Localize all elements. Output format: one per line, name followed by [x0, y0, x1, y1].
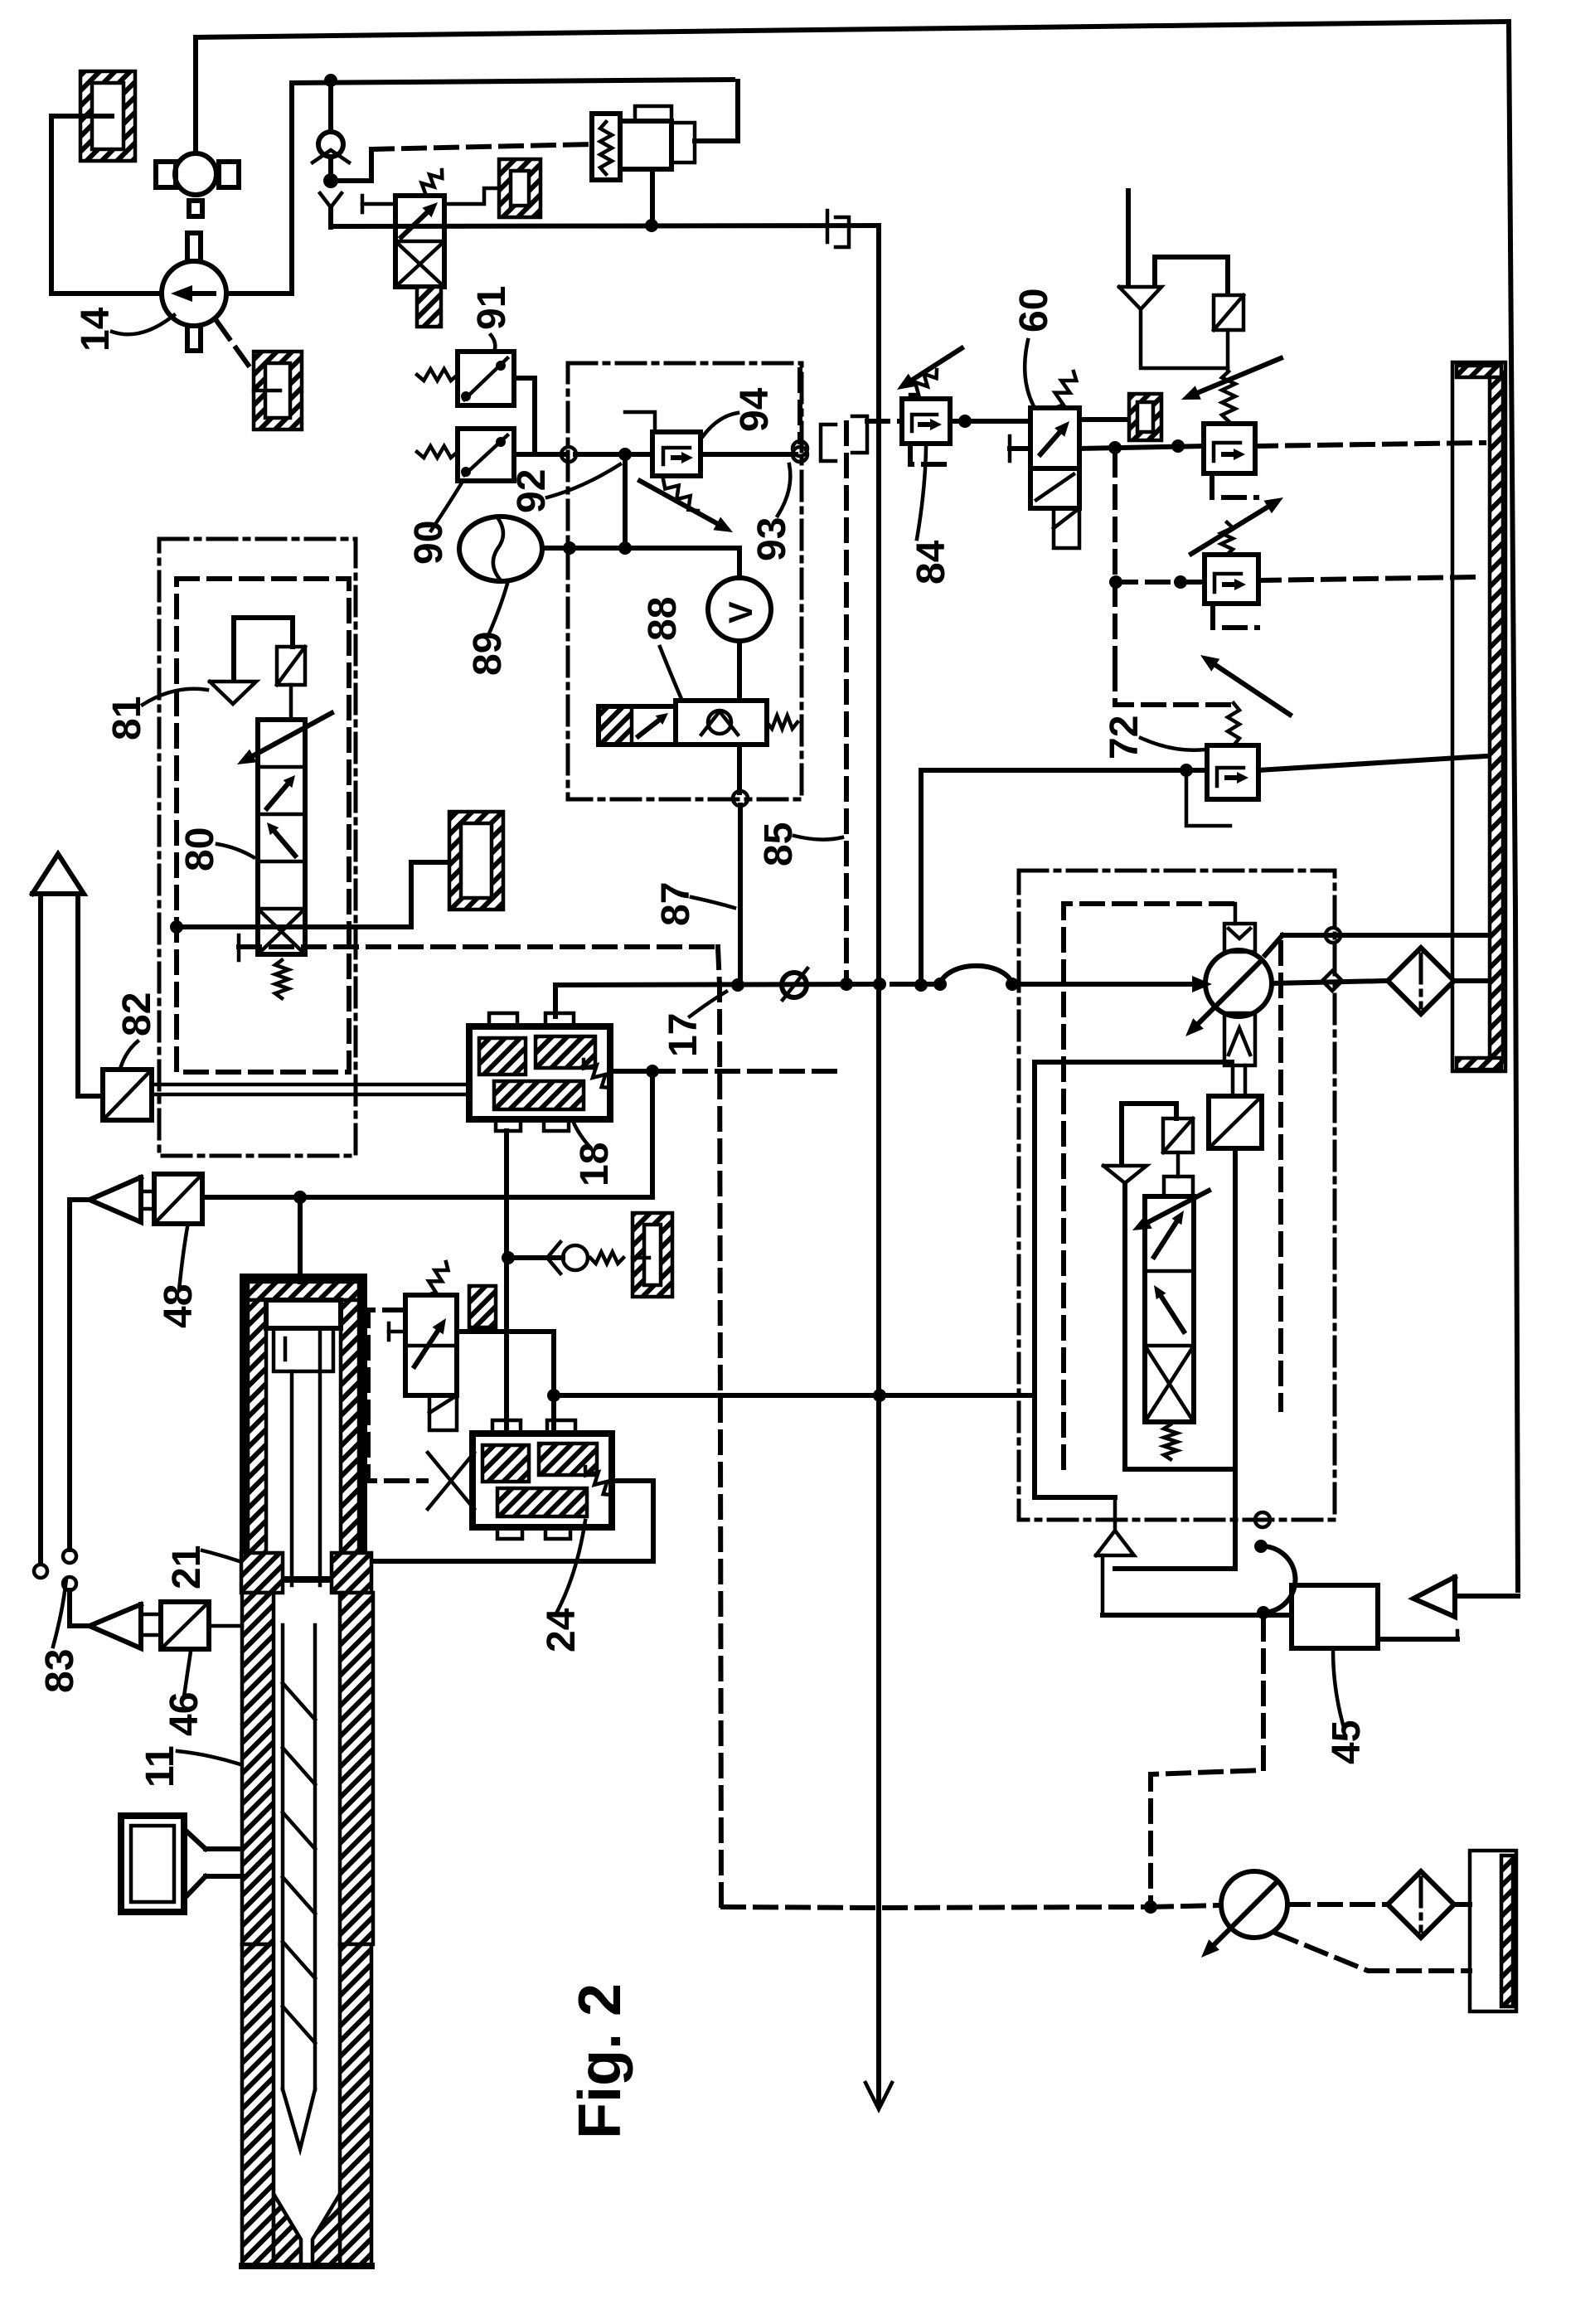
- funnel tank 81: [210, 682, 256, 704]
- svg-text:85: 85: [757, 822, 801, 866]
- main rail to filter: [1272, 981, 1386, 983]
- pilot valve T-port: [361, 196, 365, 212]
- dashed vertical x=868: [718, 947, 721, 1905]
- valve 24 spring: [585, 1467, 612, 1495]
- strainer triangle: [1096, 1531, 1134, 1555]
- node open circle right: [793, 447, 807, 462]
- transducer 46: [161, 1602, 209, 1649]
- svg-text:88: 88: [641, 597, 685, 641]
- wire valve 94 to coupling: [701, 452, 796, 457]
- valve B spring+arrow: [1221, 522, 1233, 555]
- pump P3: [1221, 1871, 1287, 1938]
- svg-text:80: 80: [178, 827, 222, 871]
- wire return to pump P3: [1151, 1905, 1221, 1907]
- valve B pilot bracket: [1213, 607, 1258, 628]
- pilot rail y=1683: [554, 1393, 1035, 1398]
- svg-text:V: V: [723, 601, 759, 623]
- inner dashed right: [1278, 943, 1283, 1409]
- check valve spring: [547, 1242, 560, 1274]
- main rail y=1188 left part: [555, 984, 879, 985]
- cylinder flange: [241, 1553, 283, 1593]
- regulator valve stack: [1145, 1196, 1194, 1422]
- pilot arrow V down: [320, 193, 342, 207]
- solenoid rod: [1226, 330, 1230, 370]
- hose bump on main rail: [892, 982, 940, 987]
- hopper bowl inner: [131, 1826, 174, 1902]
- screw flights: [283, 1683, 315, 1720]
- drain leader pump 14 to tank T2: [217, 322, 253, 371]
- long vertical rail x=1060: [876, 226, 881, 2106]
- dash-dot enclosure 80/81: [159, 539, 356, 1156]
- valve 94 spring adjust: [663, 479, 698, 511]
- transducer pump: [1209, 1096, 1262, 1148]
- valve 94 pilot bracket: [625, 412, 655, 432]
- double signal line 82 to valve 18: [152, 1083, 469, 1087]
- valve 84 spring adjust: [910, 370, 937, 395]
- valve 18 right port: [610, 1069, 652, 1074]
- tank T2 stub: [254, 389, 280, 393]
- valve 18 bottom port: [504, 1131, 509, 1434]
- wire pilot valve to tank T3: [444, 188, 499, 204]
- filter F1: [1388, 948, 1454, 1014]
- pump P3 drain to tank: [1277, 1933, 1470, 1971]
- main rail y=272 to long vertical: [331, 226, 879, 226]
- arrow end of vertical rail: [865, 2083, 892, 2109]
- valve B (reducing) mid: [1205, 555, 1258, 604]
- orifice on main rail: [782, 973, 807, 997]
- svg-text:90: 90: [407, 521, 451, 565]
- wire relief RV1 drain: [650, 171, 655, 226]
- suction line x=1490: [1233, 1148, 1238, 1569]
- svg-text:18: 18: [573, 1143, 617, 1186]
- svg-text:94: 94: [733, 387, 777, 432]
- wire y=1883 to cylinder: [360, 1559, 653, 1564]
- node open circle 85/87: [733, 791, 748, 806]
- valve 60 body: [1030, 408, 1079, 468]
- right border line: [1509, 22, 1518, 1590]
- wire valve-60 lower right rail: [1079, 446, 1204, 449]
- pump P3 arrow: [1214, 1881, 1277, 1944]
- svg-text:45: 45: [1325, 1720, 1369, 1764]
- top border line: [196, 22, 1509, 37]
- valve 60 stub: [1054, 508, 1079, 548]
- pump 14: [162, 261, 226, 326]
- wire valve A to tank strip: [1255, 443, 1484, 446]
- pump rod: [1231, 1065, 1235, 1096]
- screw shaft: [281, 1625, 285, 2089]
- valve C pilot L: [1186, 772, 1230, 826]
- wire pump 14 pressure to top: [226, 83, 292, 294]
- wire to gauge: [737, 548, 742, 578]
- tank T3: [499, 159, 541, 217]
- pilot dashed loop valve 24: [368, 1310, 426, 1481]
- piston 21: [266, 1300, 341, 1328]
- node valve84-valve60: [958, 415, 972, 428]
- coupling brackets: [821, 425, 836, 461]
- short pilot stub x=965: [797, 370, 802, 442]
- valve 84: [902, 399, 950, 444]
- dashed wire to line 85: [652, 1069, 846, 1074]
- valve 80 bottom port line: [177, 924, 411, 929]
- tank T5: [633, 1213, 672, 1297]
- valve 18 spring: [584, 1060, 610, 1088]
- wire accumulator rail: [542, 546, 739, 551]
- wire valve C to tank strip: [1258, 756, 1486, 770]
- wire rail y=702: [1115, 580, 1205, 585]
- wire rail y=929: [921, 768, 1207, 773]
- wire top border to 4-port valve: [193, 39, 198, 153]
- prop arrow on valve 80: [253, 713, 332, 756]
- pilot arrow pump-reg: [1149, 1191, 1210, 1222]
- valve 88 spring: [767, 716, 797, 729]
- node at (399,97): [324, 74, 337, 87]
- node open circle on box-93 edge: [561, 447, 576, 462]
- line 45 out right: [1378, 1637, 1457, 1642]
- rod pump-reg: [1176, 1152, 1180, 1177]
- node relief drain: [645, 219, 658, 232]
- wire coupling to valve 84: [867, 419, 902, 424]
- hopper bowl outer: [121, 1816, 184, 1912]
- solenoid valve body: [405, 1295, 457, 1395]
- inner dashed enclosure pump: [1064, 904, 1235, 1468]
- wire filter F2 to tank T6: [1454, 1902, 1470, 1907]
- solenoid box with diagonal: [1214, 295, 1244, 330]
- tank T6 bottom right: [1470, 1851, 1516, 2011]
- wire tank T1 to pump 14 suction: [51, 116, 162, 294]
- staple over solenoid: [1155, 257, 1228, 294]
- solenoid box small: [469, 1286, 496, 1327]
- barrel upper walls: [242, 1593, 274, 1944]
- pressure switch 90/92: [458, 429, 514, 481]
- funnel tank symbol: [1119, 287, 1161, 309]
- tank T2 below pump 14: [254, 352, 302, 429]
- solenoid valve spring: [428, 1262, 448, 1295]
- wire filter to tank strip: [1454, 978, 1488, 983]
- solid loop pump group: [1035, 1062, 1232, 1497]
- nozzle cone: [274, 2194, 301, 2266]
- solenoid rod 81: [289, 685, 293, 720]
- branch to check valve: [508, 1255, 563, 1260]
- dashed drop from 45 area: [1151, 1618, 1263, 1903]
- svg-text:17: 17: [662, 1013, 705, 1057]
- valve 60 spring: [1054, 371, 1076, 408]
- svg-text:Fig. 2: Fig. 2: [567, 1983, 633, 2139]
- wire relief RV1 to top rail: [695, 81, 738, 141]
- svg-text:91: 91: [470, 286, 514, 330]
- dash-dot pump enclosure: [1019, 871, 1335, 1520]
- valve 94: [652, 432, 701, 476]
- tank strip right: [1452, 362, 1505, 1071]
- tank T4: [449, 812, 503, 910]
- valve 18 pilot loop down: [650, 1071, 655, 1197]
- hose arc 45: [1261, 1546, 1295, 1613]
- wire valve B right: [1258, 577, 1477, 580]
- svg-text:82: 82: [115, 992, 159, 1036]
- dashed pilot y=1142: [239, 944, 718, 949]
- riser to tank T4: [411, 862, 449, 927]
- tank T1 top-left: [80, 71, 135, 161]
- arrow connector 46: [90, 1604, 141, 1648]
- signal line transducer 46: [70, 1590, 86, 1626]
- svg-text:84: 84: [909, 540, 953, 585]
- transducer 48: [154, 1174, 202, 1224]
- relief valve RV1 top-center: [592, 114, 620, 180]
- screw tip: [283, 2089, 315, 2149]
- signal line transducer 48: [67, 1200, 72, 1550]
- valve 24 right loop: [612, 1481, 653, 1561]
- 4-port valve (rotary) above pump: [175, 153, 216, 195]
- wire horizontal y=98: [292, 80, 733, 83]
- cylinder 21 shell: [243, 1277, 364, 1579]
- funnel stem pump-reg: [1122, 1183, 1127, 1469]
- valve 88 right block: [676, 701, 767, 745]
- svg-text:89: 89: [466, 632, 510, 676]
- main rail into pump arrow: [1144, 982, 1192, 987]
- arrow from border to 45: [1413, 1577, 1455, 1617]
- valve 84 pilot bracket: [910, 445, 952, 464]
- valve 60 lower-left port T: [1008, 436, 1012, 461]
- barrel bottom edge: [242, 2263, 371, 2269]
- valve 80 stack: [258, 720, 305, 954]
- svg-text:24: 24: [540, 1608, 584, 1652]
- regulator spring: [1164, 1424, 1177, 1459]
- riser valve 18 to main rail: [553, 985, 558, 1016]
- solenoid pump-reg: [1163, 1118, 1193, 1152]
- piston rod: [290, 1371, 294, 1585]
- connector circles 83: [34, 1565, 47, 1578]
- dashed return rail y=2300: [723, 1907, 1151, 1908]
- inner dashed enclosure: [177, 579, 349, 1072]
- valve 88 left block: [599, 706, 632, 745]
- node diamond under check valve: [328, 157, 333, 179]
- pump P2 top box: [1224, 924, 1255, 952]
- wire switches to pilot rail: [514, 378, 535, 454]
- wire valve 88 drain: [737, 745, 742, 793]
- staple pump-reg: [1122, 1104, 1176, 1164]
- wire gauge to valve 88: [737, 641, 742, 701]
- wire from top x=1361: [1126, 191, 1131, 286]
- svg-text:93: 93: [750, 517, 794, 561]
- hopper neck: [206, 1846, 242, 1851]
- valve C (72): [1207, 745, 1258, 799]
- staple over solenoid 81: [234, 618, 293, 680]
- dash-dot enclosure 93: [568, 363, 802, 799]
- pressure gauge V 93: [708, 578, 771, 641]
- svg-text:14: 14: [74, 307, 118, 352]
- funnel tank pump-reg: [1103, 1166, 1147, 1183]
- spring above valve A: [1222, 371, 1235, 421]
- pump P2 displacement arrow: [1199, 960, 1262, 1023]
- valve 80 spring: [275, 960, 288, 998]
- wire valve 60 right: [1079, 417, 1129, 422]
- case drain line: [1282, 933, 1488, 938]
- svg-text:60: 60: [1012, 289, 1056, 332]
- barrel lower walls: [242, 1944, 274, 2266]
- hatched stub under pilot valve: [417, 287, 441, 327]
- transducer 82: [103, 1070, 152, 1120]
- hatched box right of 60: [1129, 394, 1161, 440]
- big signal arrow up: [32, 854, 84, 894]
- valve A (relief) rightmost top: [1204, 424, 1255, 473]
- drop to cooler line: [1101, 1555, 1105, 1615]
- wire valve top to x=668: [457, 1329, 554, 1334]
- cartridge valve 18: [469, 1026, 610, 1119]
- wire to valve 94: [575, 452, 652, 457]
- pilot branch to relief valve: [331, 149, 371, 181]
- svg-text:46: 46: [162, 1692, 206, 1736]
- solenoid valve T-port: [387, 1323, 391, 1340]
- line 85 (long dashed riser): [844, 423, 849, 984]
- wire 82 left: [78, 1094, 103, 1099]
- case drain diag: [1265, 935, 1282, 955]
- line 87 (solid riser): [738, 805, 743, 985]
- wire y=1444 (48 line): [202, 1195, 652, 1200]
- node open circle on enclosure: [1255, 1512, 1270, 1527]
- wire 46 to barrel: [209, 1624, 242, 1628]
- svg-text:92: 92: [510, 469, 554, 513]
- valve C spring+arrow: [1228, 703, 1239, 745]
- hopper converge: [184, 1829, 206, 1849]
- pilot arrow valve A: [1198, 358, 1281, 393]
- svg-text:87: 87: [654, 882, 698, 926]
- pump strainer box: [1224, 1013, 1255, 1065]
- cooler box 45: [1292, 1585, 1378, 1648]
- pilot dashed down x=1345: [1113, 454, 1117, 668]
- riser x=1111 to main rail: [919, 770, 924, 985]
- suction bottom: [1115, 1566, 1235, 1571]
- solenoid pilot valve 2/2 top: [395, 196, 444, 287]
- cylinder top port: [298, 1197, 303, 1282]
- filter F2: [1388, 1871, 1454, 1938]
- riser pilot to accumulator rail: [623, 454, 628, 548]
- accumulator 89: [459, 517, 542, 581]
- measuring port T on rail: [826, 211, 830, 242]
- arrow connector 48: [90, 1177, 141, 1222]
- check valve 16 (circle-seat): [328, 80, 333, 132]
- cooler feed line: [1103, 1613, 1292, 1618]
- connector pump-reg: [1164, 1177, 1193, 1196]
- throttle X symbol: [428, 1453, 451, 1509]
- main pump P2: [1205, 950, 1272, 1016]
- pressure switch 91: [458, 352, 514, 405]
- svg-text:83: 83: [38, 1649, 82, 1693]
- wire pump P3 to filter F2: [1287, 1902, 1386, 1907]
- solenoid box 81: [277, 647, 305, 685]
- riser x=668: [551, 1332, 556, 1434]
- funnel stem to rod: [1141, 309, 1228, 368]
- valve A pilot bracket: [1212, 477, 1257, 497]
- solenoid valve stub: [429, 1395, 457, 1430]
- cartridge valve 24: [473, 1434, 612, 1527]
